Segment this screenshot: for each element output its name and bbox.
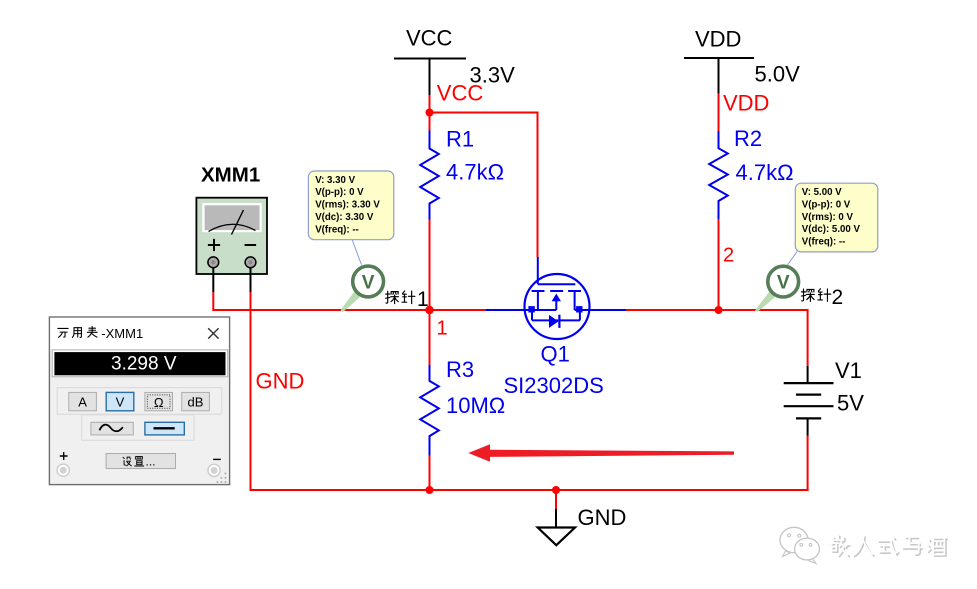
dialog mode group box [57,388,222,415]
svg-text:5.0V: 5.0V [755,62,801,87]
svg-text:VDD: VDD [695,27,741,52]
probe 1 (voltage probe) [341,266,384,311]
svg-text:V: 3.30 V: V: 3.30 V [315,175,355,186]
net label GND (red) [256,368,305,393]
value label 4.7k ohm (R1) [446,159,504,184]
wire VDD stem to R2 [718,94,720,131]
svg-text:XMM1: XMM1 [201,163,260,186]
value label 3.3V [470,63,516,88]
label V1 [835,358,862,383]
wire R1 bottom to node 1 [429,220,431,312]
power symbol VCC [394,25,466,95]
svg-text:2: 2 [832,286,844,309]
probe tooltip 1 [308,171,393,240]
value label 5.0V [755,62,801,87]
net label VDD (red) [723,91,769,116]
svg-text:R1: R1 [446,127,474,152]
button AC (sine) [91,422,133,435]
svg-text:VCC: VCC [437,81,484,106]
wire node 1 to R3 [429,310,431,365]
dialog resize grip [217,473,227,483]
wire V1 minus down [807,436,809,490]
svg-text:R3: R3 [446,357,474,382]
label R2 [734,126,762,151]
svg-text:5V: 5V [837,391,864,416]
junction GND-rail [552,486,560,494]
junction node 1 [425,306,433,314]
svg-text:...: ... [146,455,156,469]
svg-text:V(dc): 3.30 V: V(dc): 3.30 V [315,212,374,223]
wire XMM1 plus lead [213,292,429,311]
transistor Q1 (N-MOSFET SI2302DS) [486,257,626,339]
svg-text:V(dc): 5.00 V: V(dc): 5.00 V [802,224,861,235]
svg-text:2: 2 [723,245,734,267]
wire VCC node to gate column [430,112,538,114]
watermark text 嵌入式与酒 [830,535,948,557]
wire Q1 drain to node 2 [626,309,719,311]
dialog close button [208,328,218,338]
button DC (selected) [145,422,184,435]
svg-text:V(p-p): 0 V: V(p-p): 0 V [315,187,364,198]
button 设置... [106,454,175,469]
svg-text:1: 1 [437,318,448,340]
wire gate column down [537,112,539,258]
dialog terminal plus [57,464,69,476]
multimeter XMM1 instrument [196,163,267,292]
probe 1 label 探针1 [386,288,429,311]
wire node 1 to Q1 source [430,309,487,311]
net label VCC (red) [437,81,484,106]
dialog display 3.298 V [52,350,228,377]
probe tooltip 2 connector [787,252,798,267]
svg-text:VCC: VCC [406,25,453,50]
dialog terminal minus [208,464,220,476]
svg-text:V(rms): 0 V: V(rms): 0 V [802,212,854,223]
svg-text:V: V [362,272,375,293]
svg-text:V(p-p): 0 V: V(p-p): 0 V [802,199,851,210]
probe tooltip 1 connector [352,239,362,264]
button A [69,392,97,410]
dialog minus label [213,458,221,460]
value label 4.7k ohm (R2) [736,160,794,185]
button dB [182,392,210,410]
resistor R3 [420,365,439,456]
svg-text:GND: GND [256,368,305,393]
multimeter dialog window [49,317,229,485]
ground symbol [538,509,575,545]
svg-text:10MΩ: 10MΩ [446,393,505,418]
svg-text:V: V [777,272,790,293]
wire bottom rail [251,489,809,491]
svg-text:V1: V1 [835,358,862,383]
junction node VCC-R1 [426,109,434,117]
junction R3-rail [426,486,434,494]
svg-text:Q1: Q1 [541,341,570,366]
svg-text:SI2302DS: SI2302DS [504,373,604,398]
wire ground stub [555,490,557,509]
net number 2 [723,245,734,267]
label R3 [446,357,474,382]
svg-text:V(freq): --: V(freq): -- [802,237,846,248]
svg-text:V(freq): --: V(freq): -- [315,224,359,235]
svg-text:VDD: VDD [723,91,769,116]
label Q1 [541,341,570,366]
svg-text:3.298 V: 3.298 V [111,354,177,375]
svg-text:1: 1 [417,288,429,311]
label SI2302DS [504,373,604,398]
annotation red arrow [468,444,734,462]
watermark logo (chat bubbles) [780,527,819,563]
resistor R1 [420,131,439,220]
svg-text:V: V [116,395,125,410]
svg-text:-XMM1: -XMM1 [101,326,143,341]
button V (selected) [106,392,134,410]
dialog title 万用表-XMM1 [58,326,143,341]
svg-text:dB: dB [188,395,204,410]
svg-text:R2: R2 [734,126,762,151]
wire R3 bottom to rail [429,456,431,491]
svg-text:GND: GND [578,505,627,530]
net number 1 [437,318,448,340]
svg-text:A: A [78,395,87,410]
wire XMM1 minus lead [250,292,252,492]
svg-text:Ω: Ω [154,395,164,410]
probe tooltip 2 [795,183,878,252]
power symbol VDD [684,27,754,94]
value label 10M ohm (R3) [446,393,505,418]
wire R2 bottom to node 2 [718,219,720,311]
svg-text:V(rms): 3.30 V: V(rms): 3.30 V [315,200,380,211]
probe 2 label 探针2 [801,286,843,309]
label GND (black) [578,505,627,530]
button Ohm (focus dotted) [145,392,173,410]
svg-text:V: 5.00 V: V: 5.00 V [802,187,842,198]
dialog waveform group box [82,415,194,441]
battery V1 [784,366,834,436]
dialog plus label [60,452,68,460]
resistor R2 [709,131,728,219]
svg-text:4.7kΩ: 4.7kΩ [446,159,504,184]
junction node 2 [715,306,723,314]
wire VCC stem to R1 [429,95,431,131]
label R1 [446,127,474,152]
wire node 2 to V1 [719,310,808,366]
probe 2 (voltage probe) [755,266,798,311]
value label 5V [837,391,864,416]
svg-text:4.7kΩ: 4.7kΩ [736,160,794,185]
